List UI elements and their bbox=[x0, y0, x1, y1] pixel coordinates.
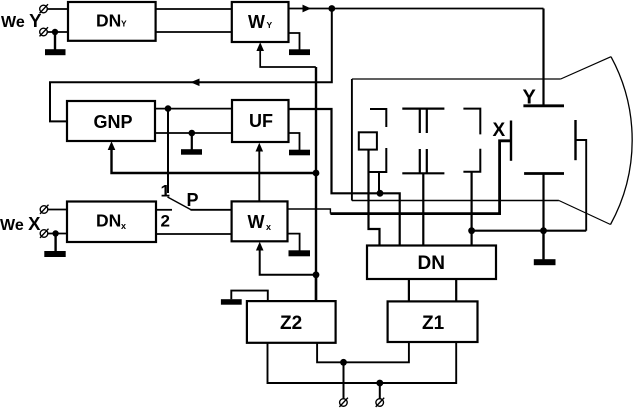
arrowhead into Wy bottom bbox=[256, 42, 264, 51]
wire electrode G1 stem bbox=[378, 172, 380, 193]
electrode A1 bottom plates bbox=[420, 149, 427, 173]
electrode A1 top bar bbox=[402, 107, 444, 109]
CRT envelope neck bottom bbox=[352, 200, 559, 202]
cathode square bbox=[359, 132, 377, 149]
electrode A2 bottom dash bbox=[463, 149, 480, 172]
junction on Wy output bbox=[328, 5, 335, 12]
wire Wy output to CRT Y plate bbox=[289, 8, 544, 10]
wire sweep feedback to GNP bottom (line A) bbox=[112, 149, 316, 174]
wire Z2 ground lead bbox=[231, 291, 267, 302]
wire Wx output to CRT X plate bbox=[288, 209, 331, 214]
wire X right plate to common line bbox=[576, 140, 587, 231]
wire Y bottom plate down to common line bbox=[542, 174, 544, 231]
terminal supply 2 bbox=[376, 398, 385, 407]
CRT screen arc bbox=[611, 57, 633, 225]
junction on We Y lower wire bbox=[52, 29, 58, 35]
block DNy bbox=[68, 2, 156, 41]
wire Wx ground lead bbox=[288, 234, 300, 251]
wire sweep bus vertical (Z2 to feedback arrows) bbox=[315, 67, 317, 301]
ground at Z2 bbox=[221, 299, 242, 305]
wire from Wx top to UF bottom bbox=[258, 150, 260, 201]
wire We X upper to DNx bbox=[48, 209, 67, 211]
wire We Y lower to DNy bbox=[47, 31, 68, 33]
junction on GNP-UF upper wire bbox=[165, 105, 172, 112]
wire sweep feedback to Wx bottom bbox=[260, 249, 316, 275]
wire Z2 left bottom to Z1 bottom (supply line 2) bbox=[268, 342, 457, 383]
svg-text:GNP: GNP bbox=[94, 112, 133, 132]
electrode A1 bottom bar bbox=[402, 172, 444, 174]
block DNx bbox=[67, 202, 156, 243]
svg-text:W: W bbox=[248, 12, 265, 32]
terminal We X lower bbox=[40, 229, 49, 238]
wire GNP to UF upper bbox=[155, 108, 232, 110]
ground at CRT bbox=[534, 231, 556, 266]
arrowhead on feedback line toward GNP bbox=[191, 79, 200, 87]
wire UF ground lead bbox=[289, 133, 300, 150]
block Wx bbox=[232, 201, 288, 241]
wire junction down to switch contact 1 bbox=[167, 109, 169, 193]
junction supply line 1 bbox=[340, 359, 347, 366]
junction common line at DN input 4 bbox=[468, 227, 475, 234]
ground at Wy bbox=[289, 49, 310, 55]
electrode G1 bottom dash bbox=[369, 148, 386, 172]
arrowhead into GNP bottom bbox=[108, 141, 116, 150]
svg-text:DN: DN bbox=[418, 253, 445, 274]
wire GNP to UF lower bbox=[155, 132, 232, 134]
wire DN to Z1 left bbox=[408, 279, 410, 301]
wire We Y upper to DNy bbox=[47, 8, 68, 10]
ground at We Y input bbox=[45, 32, 66, 55]
CRT funnel top diagonal bbox=[561, 57, 611, 79]
terminal We Y lower bbox=[40, 27, 49, 36]
terminal We Y upper bbox=[40, 4, 49, 13]
CRT envelope neck top bbox=[352, 78, 561, 80]
wire supply terminal 2 drop bbox=[379, 383, 381, 399]
electrode A1 top plates bbox=[420, 109, 427, 133]
ground at UF bbox=[289, 150, 310, 156]
block Z1 bbox=[388, 301, 478, 342]
svg-text:We X: We X bbox=[0, 213, 41, 234]
svg-text:Z1: Z1 bbox=[422, 313, 445, 334]
CRT envelope neck left bbox=[351, 79, 353, 201]
svg-text:Y: Y bbox=[121, 19, 127, 29]
arrowhead into Wx bottom bbox=[256, 242, 264, 251]
electrode G1 top dash bbox=[370, 109, 386, 127]
wire electrode A2 stem to DN input 4 bbox=[471, 172, 473, 246]
switch contact 2 stub bbox=[156, 209, 172, 211]
terminal supply 1 bbox=[339, 398, 348, 407]
block GNP bbox=[67, 101, 155, 141]
CRT funnel bottom diagonal bbox=[559, 201, 611, 225]
wire DN to Z1 right bbox=[455, 279, 457, 301]
wire Wx output thick segment bbox=[330, 141, 510, 214]
junction supply line 2 bbox=[376, 380, 383, 387]
wire supply terminal 1 drop bbox=[343, 362, 345, 399]
block Wy bbox=[232, 2, 289, 42]
ground at Wx bbox=[289, 250, 311, 256]
wire cathode to DN input 1 bbox=[369, 150, 380, 246]
wire switch pole to Wx bbox=[191, 209, 232, 211]
X deflection plate right bbox=[574, 120, 576, 160]
Y deflection plate top bbox=[523, 104, 564, 107]
junction sweep bus with Wx feedback bbox=[313, 271, 320, 278]
block UF bbox=[232, 100, 289, 142]
svg-text:2: 2 bbox=[161, 212, 170, 231]
svg-text:P: P bbox=[187, 190, 199, 210]
arrowhead into UF bottom bbox=[256, 143, 264, 152]
svg-text:UF: UF bbox=[249, 111, 273, 131]
arrowhead on Wy output bbox=[303, 5, 312, 13]
wire DNy to Wy upper bbox=[156, 8, 232, 10]
wire Z2 right bottom to Z1 left bottom (supply line 1) bbox=[317, 342, 409, 362]
svg-text:W: W bbox=[248, 212, 265, 232]
wire We X lower to DNx bbox=[48, 233, 67, 235]
svg-text:Y: Y bbox=[267, 20, 273, 30]
svg-text:DN: DN bbox=[96, 11, 121, 31]
electrode A2 top dash bbox=[463, 109, 480, 135]
junction common line at CRT ground bbox=[540, 227, 547, 234]
terminal We X upper bbox=[40, 205, 49, 214]
junction on GNP-UF lower wire bbox=[189, 130, 196, 137]
block DN bbox=[367, 246, 496, 280]
junction UF output with grid electrode stem bbox=[377, 190, 384, 197]
wire Wy output down segment to Y top plate bbox=[542, 9, 544, 106]
wire sweep bus into Z2 top bbox=[315, 275, 317, 301]
wire electrode A1 stem to DN input 3 bbox=[422, 173, 424, 245]
junction line A with sweep bus bbox=[313, 170, 320, 177]
svg-text:x: x bbox=[266, 222, 271, 232]
wire Wy ground lead bbox=[289, 33, 300, 50]
svg-text:X: X bbox=[493, 120, 506, 141]
svg-text:Z2: Z2 bbox=[280, 313, 302, 334]
wire feedback into Wy bottom bbox=[260, 50, 316, 68]
svg-text:DN: DN bbox=[96, 211, 121, 231]
junction on We X lower wire bbox=[52, 230, 58, 236]
X deflection plate left bbox=[510, 121, 512, 161]
svg-text:x: x bbox=[121, 221, 126, 231]
Y deflection plate bottom bbox=[524, 172, 564, 175]
ground at We X input bbox=[44, 234, 65, 258]
wire CRT common line bbox=[472, 230, 587, 232]
wire DNy to Wy lower bbox=[156, 31, 232, 33]
block Z2 bbox=[247, 301, 336, 343]
switch P arm bbox=[168, 197, 192, 210]
ground on GNP-UF lower wire bbox=[181, 133, 202, 155]
wire UF output to CRT grid and DN bbox=[289, 109, 400, 246]
wire DNx to Wx lower bbox=[156, 233, 232, 235]
wire feedback from Wy junction to GNP input bbox=[50, 9, 332, 122]
svg-text:We Y: We Y bbox=[1, 10, 42, 31]
